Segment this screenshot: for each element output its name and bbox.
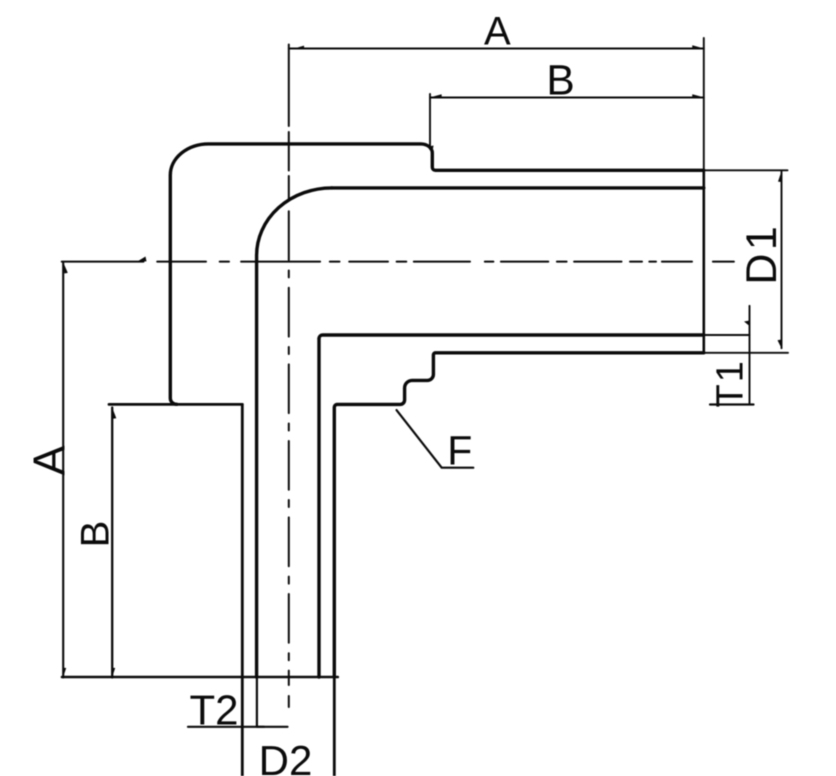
- wire: tube end face line y=677 with extensions to left: [62, 676, 338, 679]
- svg-text:D1: D1: [738, 223, 786, 285]
- wire: bottom outer contour with F ogee step, down to vertical tube right wall: [334, 353, 704, 677]
- wire: extension line for B (top) left end: [429, 94, 431, 149]
- node: horizontal center line (dash-dot): [62, 261, 734, 263]
- wire: bore corner and left bore line of vertical tube: [257, 188, 332, 677]
- wire: dimension line A (left): [62, 262, 64, 678]
- arrowhead D1 bottom: [778, 340, 782, 349]
- wire: body bottom edge / B extension line at y=404.4: [109, 403, 242, 406]
- wire: T1 underline: [710, 403, 754, 405]
- wire: dimension line D1: [781, 171, 783, 348]
- svg-text:F: F: [447, 428, 472, 474]
- wire: bore extension below end for T2 with foot: [257, 677, 264, 727]
- svg-text:A: A: [24, 445, 75, 475]
- arrowhead D1 top: [778, 171, 782, 182]
- arrowhead A top left: [293, 46, 304, 49]
- arrowhead B left bottom: [112, 668, 115, 677]
- node: vertical center line (dash-dot): [288, 45, 290, 708]
- wire: dimension line A (top): [289, 48, 704, 50]
- wire: dimension line B (left): [111, 408, 113, 678]
- artifact arrow at B extension bottom: [429, 146, 434, 153]
- arrowhead T1 tick: [744, 321, 750, 327]
- wire: right bore line of vertical tube: [317, 339, 320, 678]
- arrowhead B top left: [431, 94, 442, 97]
- wire: right outer wall extension to bottom edge (D2 extension): [333, 677, 336, 776]
- wire: outer body contour (left wall, top corner, top line, step down to barrel OD): [170, 144, 704, 404]
- svg-text:B: B: [546, 58, 574, 105]
- wire: dimension line B (top): [430, 97, 704, 99]
- svg-text:T2: T2: [189, 687, 238, 734]
- wire: left outer wall of vertical tube down to bottom edge (D2 extension): [241, 404, 244, 776]
- artifact bump on center line: [138, 257, 147, 262]
- wire: extension line above end face for dimension A: [703, 38, 705, 170]
- svg-text:D2: D2: [259, 737, 313, 776]
- wire: T1 vertical line: [749, 306, 751, 405]
- arrowhead B top right: [692, 94, 703, 97]
- wire: top bore line of horizontal barrel: [332, 186, 704, 189]
- wire: bottom bore line with inner corner fillet: [319, 335, 704, 339]
- wire: D1 top extension line: [704, 169, 788, 171]
- arrowhead A left bottom: [63, 668, 66, 677]
- svg-text:T1: T1: [709, 359, 751, 407]
- arrowhead A top right: [692, 45, 703, 48]
- wire: D1 bottom extension line: [704, 352, 788, 354]
- arrowhead A left top: [63, 262, 68, 273]
- svg-text:A: A: [484, 10, 511, 54]
- wire: leader line for F: [397, 410, 474, 468]
- svg-text:B: B: [74, 521, 118, 548]
- arrowhead B left top: [112, 408, 116, 419]
- wire: end face of horizontal barrel: [702, 170, 705, 352]
- wire: bore extension for T1: [704, 334, 750, 336]
- wire: T2 underline: [188, 726, 288, 728]
